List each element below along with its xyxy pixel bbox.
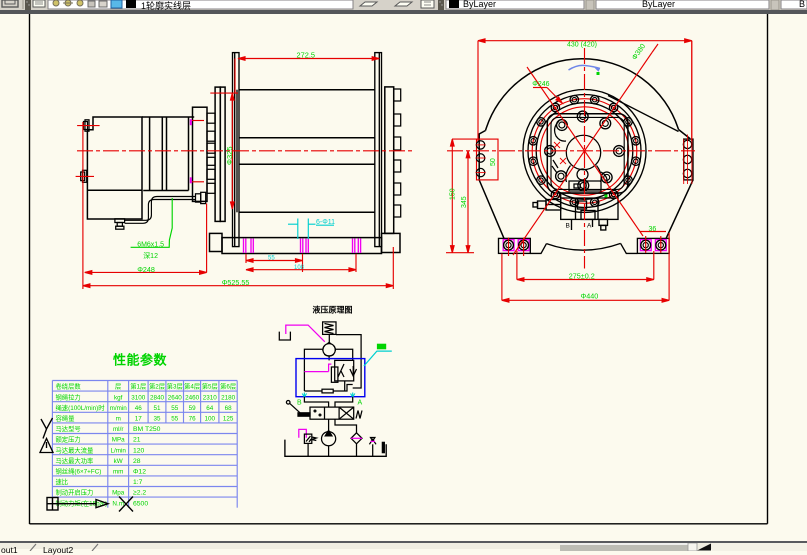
dim 430 (420) top [478,39,692,141]
svg-text:55: 55 [171,416,179,423]
check valve [350,366,357,376]
svg-text:第1层: 第1层 [130,382,146,391]
dim phi248 [83,122,207,289]
svg-text:B: B [566,223,570,230]
svg-text:马达最大流量: 马达最大流量 [56,445,94,454]
layer combo background [48,0,353,9]
toolbar grip 2 [438,0,444,10]
line spring to motor [328,334,330,343]
tank line [285,440,386,457]
svg-text:深12: 深12 [143,251,158,260]
ByLayer texts [463,0,496,9]
svg-text:马达型号: 马达型号 [56,424,81,433]
dim brake drum vertical [210,59,238,210]
foot bolts left [503,240,529,251]
table grid [52,381,237,508]
valve block under flange [533,193,618,230]
motor mount bolt lower [81,170,87,182]
toolbar separator [22,0,24,9]
motor bolt tick dims [76,121,204,182]
svg-text:430 (420): 430 (420) [567,42,597,49]
bearing support bolt tabs [394,89,401,217]
svg-text:第4层: 第4层 [184,382,200,391]
svg-text:卷绕层数: 卷绕层数 [56,382,82,391]
svg-text:液压原理图: 液压原理图 [313,305,353,315]
svg-text:ml/r: ml/r [113,426,124,433]
svg-text:L/min: L/min [110,447,126,454]
svg-text:6M6x1.5: 6M6x1.5 [137,241,164,248]
svg-text:Φ380: Φ380 [630,42,648,62]
svg-text:2180: 2180 [221,394,236,401]
color swatch [449,0,459,8]
bell housing plate [193,107,208,201]
brake circle [523,90,646,213]
left plate bolts [476,141,484,177]
balance valve blue boundary [296,359,365,397]
svg-text:150: 150 [450,188,457,200]
svg-text:第3层: 第3层 [167,382,183,391]
svg-text:MPa: MPa [112,437,125,444]
front view: body left shoulder [479,131,504,239]
svg-text:59: 59 [189,405,197,412]
motor mounting square plate [547,114,628,193]
svg-text:272.5: 272.5 [297,51,316,60]
motor drain plug [115,219,125,229]
layer color swatch [126,0,136,8]
side view: hydraulic motor block [87,117,142,219]
svg-text:Φ248: Φ248 [137,265,155,274]
svg-text:76: 76 [189,416,197,423]
gearbox section [142,117,194,191]
brake housing plates [215,87,225,221]
svg-text:速比: 速比 [56,477,69,486]
svg-text:钢丝绳(6×7+FC): 钢丝绳(6×7+FC) [56,467,102,476]
linetype combo [596,0,769,9]
layer name text [141,0,191,12]
balance valve square [335,360,354,391]
magenta drain line [286,325,325,342]
table text [56,382,237,508]
svg-text:3100: 3100 [131,394,146,401]
valve to pump and filter lines [329,419,357,433]
svg-text:马达最大功率: 马达最大功率 [56,456,94,465]
svg-text:55: 55 [171,405,179,412]
drum left flange [233,53,240,247]
motor mount bolt upper [84,120,90,131]
motor port lines [304,349,352,391]
red diagonal 2 [527,67,643,236]
svg-text:第5层: 第5层 [202,382,218,391]
svg-text:46: 46 [135,405,143,412]
hydraulic pipe to motor [125,197,196,224]
UCS icon [47,498,108,511]
front view: body right shoulder [679,130,691,139]
svg-text:2460: 2460 [185,394,200,401]
svg-text:36: 36 [649,226,657,233]
svg-text:Φ440: Φ440 [581,291,599,300]
drawing frame bottom border [30,523,768,525]
svg-text:Φ325: Φ325 [225,147,234,166]
right bearing support column [385,87,394,234]
right bolt plate [684,139,693,180]
svg-text:21: 21 [133,437,141,444]
toolbar viewport icon [2,0,18,7]
svg-text:kgf: kgf [114,394,123,401]
resize grip triangle [697,544,711,551]
svg-text:125: 125 [223,416,234,423]
small red tick marks [554,142,566,164]
drawing frame left border [29,14,31,524]
svg-text:2310: 2310 [203,394,218,401]
cyan leader to label [364,351,392,366]
svg-text:2840: 2840 [150,394,165,401]
magenta flange bolts [190,119,192,183]
svg-text:额定压力: 额定压力 [56,435,81,444]
svg-text:A: A [587,223,592,230]
left foot bolt red lines [509,238,524,257]
svg-text:6-Φ11: 6-Φ11 [316,219,335,226]
small check valve right [369,438,376,457]
brake bolt tabs column [207,113,215,193]
left side bolt plate red box [477,139,499,180]
rotation direction blue arrow [569,65,601,70]
rope guard edge [608,96,679,132]
toolbar grip [25,0,31,10]
magenta pilot line [304,364,331,372]
front view: body dome arc [486,59,679,131]
flange bolt ring [529,96,640,207]
manual lever [286,401,310,417]
svg-text:Φ525.55: Φ525.55 [222,278,250,287]
svg-text:28: 28 [133,458,141,465]
drawing frame right border [767,14,769,524]
svg-text:6500: 6500 [133,500,148,507]
left vertical dims 150 345 [446,139,477,253]
separator [771,0,779,10]
dim phi440 [502,233,669,302]
warning triangle symbol [40,439,53,453]
svg-text:容绳量: 容绳量 [56,414,76,423]
point marker X [119,497,133,512]
svg-text:钢绳拉力: 钢绳拉力 [56,392,81,401]
filter [351,433,362,457]
svg-text:108: 108 [294,265,305,271]
separator [586,0,594,10]
svg-text:1:7: 1:7 [133,479,143,486]
svg-text:Mpa: Mpa [112,490,125,497]
bolt circle red [532,99,637,204]
surface finish symbol [41,418,53,439]
svg-text:m/min: m/min [110,405,128,412]
dim 272.5 top [238,57,379,61]
right plate bolts [683,140,691,178]
centerline side view [77,150,413,152]
svg-text:17: 17 [135,416,143,423]
svg-text:Φ246: Φ246 [532,81,549,88]
svg-text:50: 50 [490,158,497,166]
svg-text:120: 120 [133,447,145,454]
flange outer circle [528,95,641,208]
scrollbar thumb [560,543,688,551]
text 6M6x1.5 leader [131,198,173,247]
color combo [446,0,584,9]
svg-text:m: m [116,416,121,423]
svg-text:35: 35 [153,416,161,423]
svg-text:≥2.2: ≥2.2 [133,490,146,497]
svg-text:B: B [297,400,302,407]
svg-text:绳速(100L/min)时: 绳速(100L/min)时 [56,403,106,412]
svg-text:68: 68 [225,405,233,412]
svg-text:64: 64 [206,405,214,412]
dim 275 +-0.2 [517,251,654,281]
svg-text:2640: 2640 [168,394,183,401]
svg-text:制动开启压力: 制动开启压力 [56,488,94,497]
pilot box [331,367,338,382]
green label block [377,344,386,350]
svg-text:kW: kW [114,458,123,465]
inner red circle [540,107,628,195]
spigot circle [536,103,633,200]
svg-text:51: 51 [153,405,161,412]
pump [322,430,336,456]
layer state icons [53,0,59,6]
pipe end fitting [196,192,206,203]
svg-text:55: 55 [268,256,275,262]
svg-text:性能参数: 性能参数 [113,353,168,368]
directional valve [310,407,362,419]
svg-text:100: 100 [205,416,216,423]
dim 36 right foot [640,232,666,254]
drum right flange [375,53,382,247]
cyan dim 6-phi11 [288,219,334,240]
foot bolts right [640,240,666,251]
svg-text:N.m: N.m [112,500,124,507]
svg-text:A: A [358,400,363,407]
svg-text:Φ12: Φ12 [133,469,146,476]
front centerlines [447,150,695,152]
front feet [499,238,670,253]
brake spring box [323,322,336,335]
base channel [210,233,401,253]
center casting blob [552,121,607,191]
relief valve [299,429,307,437]
dim phi525.55 [83,247,393,289]
inner bolt pattern [545,111,625,191]
drum barrel [239,90,375,213]
svg-text:第2层: 第2层 [149,382,165,391]
tab separators [30,544,36,551]
hydraulic motor symbol [323,342,335,356]
port arrows cyan [302,393,306,397]
svg-text:第6层: 第6层 [220,382,236,391]
lines from ports to valve [304,397,328,407]
drain tank top left [279,332,290,340]
svg-text:mm: mm [113,469,124,476]
layer toolbar buttons [360,0,434,8]
magenta base bolts [244,239,361,254]
red dim 55 under base [246,254,356,272]
lineweight combo [781,0,807,9]
svg-text:345: 345 [461,196,468,208]
red diagonal 1 [513,53,652,256]
orifice [304,385,352,393]
svg-text:层: 层 [115,383,121,391]
line to check valve right [336,335,361,388]
svg-text:275±0.2: 275±0.2 [569,271,595,280]
layers tool icon [33,0,45,7]
svg-text:BM T250: BM T250 [133,426,161,433]
